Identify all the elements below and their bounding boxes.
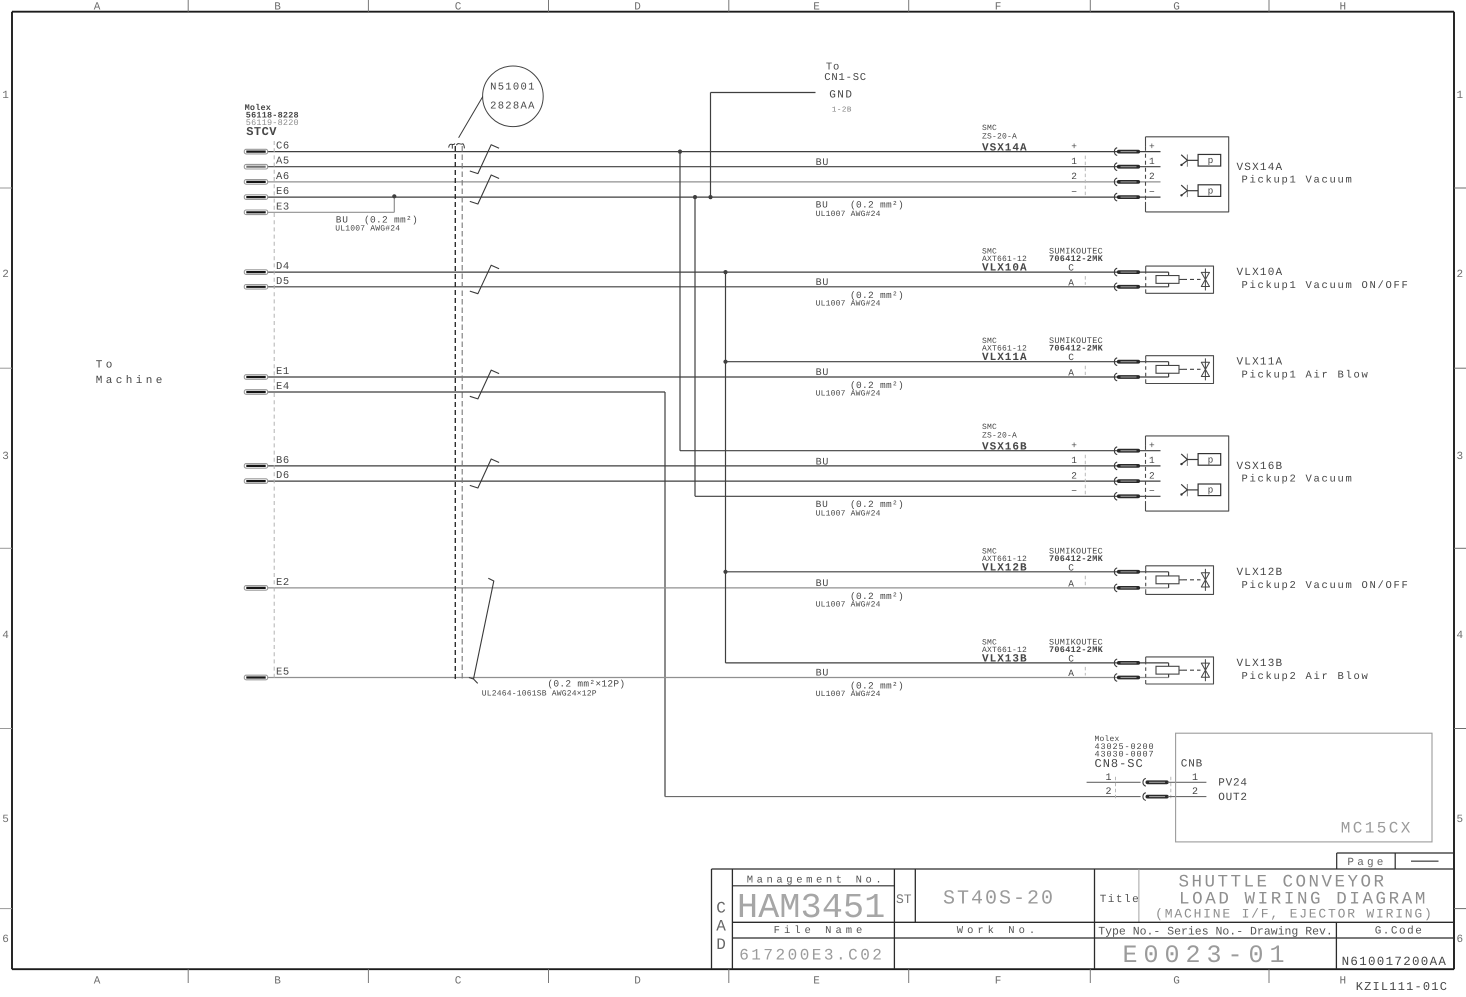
svg-text:2: 2 xyxy=(1071,171,1077,182)
svg-text:−: − xyxy=(1071,486,1077,497)
svg-text:BU: BU xyxy=(816,278,830,289)
svg-text:H: H xyxy=(1339,2,1346,14)
svg-text:N610017200AA: N610017200AA xyxy=(1342,955,1448,969)
svg-text:UL1007 AWG#24: UL1007 AWG#24 xyxy=(816,509,881,518)
svg-text:VSX14A: VSX14A xyxy=(982,143,1028,155)
svg-text:CN1-SC: CN1-SC xyxy=(824,72,867,84)
svg-text:p: p xyxy=(1208,155,1214,166)
svg-text:p: p xyxy=(1208,485,1214,496)
svg-text:+: + xyxy=(1149,440,1155,451)
svg-text:BU: BU xyxy=(816,457,830,468)
svg-text:VLX13B: VLX13B xyxy=(1237,658,1284,670)
svg-text:Pickup1 Vacuum: Pickup1 Vacuum xyxy=(1242,175,1354,187)
svg-text:A6: A6 xyxy=(276,171,290,183)
svg-text:VLX11A: VLX11A xyxy=(982,352,1028,364)
svg-text:C: C xyxy=(1068,562,1074,573)
svg-text:1: 1 xyxy=(1192,773,1198,784)
svg-text:E6: E6 xyxy=(276,186,290,198)
svg-text:C: C xyxy=(1068,263,1074,274)
svg-text:Work No.: Work No. xyxy=(957,925,1039,937)
svg-text:+: + xyxy=(1149,141,1155,152)
svg-text:BU: BU xyxy=(816,579,830,590)
svg-text:E: E xyxy=(813,2,820,14)
svg-text:D: D xyxy=(634,2,641,14)
svg-text:MC15CX: MC15CX xyxy=(1341,820,1413,838)
svg-text:E0023-01: E0023-01 xyxy=(1122,941,1290,970)
svg-text:Pickup2 Vacuum ON/OFF: Pickup2 Vacuum ON/OFF xyxy=(1242,580,1410,592)
svg-text:H: H xyxy=(1339,976,1346,988)
svg-text:2: 2 xyxy=(1149,470,1155,481)
svg-text:−: − xyxy=(1149,186,1155,197)
svg-text:File Name: File Name xyxy=(774,925,867,937)
svg-text:UL1007 AWG#24: UL1007 AWG#24 xyxy=(335,225,400,234)
svg-text:Pickup1 Air Blow: Pickup1 Air Blow xyxy=(1242,370,1370,382)
svg-text:706412-2MK: 706412-2MK xyxy=(1049,254,1104,264)
svg-text:CN8-SC: CN8-SC xyxy=(1095,757,1144,771)
svg-text:706412-2MK: 706412-2MK xyxy=(1049,554,1104,564)
svg-text:PV24: PV24 xyxy=(1218,778,1248,790)
svg-text:2: 2 xyxy=(2,269,9,281)
svg-text:VSX16B: VSX16B xyxy=(1237,461,1284,473)
svg-text:1: 1 xyxy=(1456,90,1463,102)
svg-text:VLX12B: VLX12B xyxy=(1237,567,1284,579)
svg-text:VSX16B: VSX16B xyxy=(982,442,1028,454)
svg-text:D: D xyxy=(716,936,726,954)
svg-text:VLX10A: VLX10A xyxy=(1237,267,1284,279)
svg-text:2: 2 xyxy=(1105,787,1111,798)
svg-text:BU: BU xyxy=(816,158,830,169)
svg-text:706412-2MK: 706412-2MK xyxy=(1049,645,1104,655)
svg-text:p: p xyxy=(1208,186,1214,197)
svg-text:VLX13B: VLX13B xyxy=(982,653,1028,665)
svg-text:VLX10A: VLX10A xyxy=(982,263,1028,275)
svg-text:A: A xyxy=(1068,668,1074,679)
svg-text:(MACHINE I/F, EJECTOR WIRING): (MACHINE I/F, EJECTOR WIRING) xyxy=(1155,907,1433,922)
svg-text:A5: A5 xyxy=(276,156,290,168)
svg-text:BU: BU xyxy=(816,368,830,379)
svg-text:BU: BU xyxy=(816,499,829,510)
svg-text:D4: D4 xyxy=(276,261,290,273)
svg-text:A: A xyxy=(1068,368,1074,379)
svg-text:C: C xyxy=(716,900,726,918)
svg-text:3: 3 xyxy=(1456,451,1463,463)
svg-text:(0.2 mm²): (0.2 mm²) xyxy=(850,200,904,211)
svg-text:706412-2MK: 706412-2MK xyxy=(1049,344,1104,354)
svg-text:OUT2: OUT2 xyxy=(1218,792,1248,804)
svg-text:Type No.- Series No.- Drawing: Type No.- Series No.- Drawing Rev. xyxy=(1098,926,1333,939)
svg-text:5: 5 xyxy=(1456,814,1463,826)
svg-text:C: C xyxy=(455,976,462,988)
svg-text:UL1007 AWG#24: UL1007 AWG#24 xyxy=(816,299,881,308)
svg-text:Pickup2 Vacuum: Pickup2 Vacuum xyxy=(1242,474,1354,486)
svg-text:p: p xyxy=(1208,454,1214,465)
svg-text:2: 2 xyxy=(1071,470,1077,481)
svg-text:ST: ST xyxy=(896,892,912,907)
svg-text:+: + xyxy=(1071,440,1077,451)
svg-text:E4: E4 xyxy=(276,381,290,393)
svg-text:6: 6 xyxy=(1456,934,1463,946)
svg-text:G.Code: G.Code xyxy=(1375,926,1424,938)
svg-text:HAM3451: HAM3451 xyxy=(737,888,885,928)
svg-text:VSX14A: VSX14A xyxy=(1237,162,1284,174)
svg-text:N51001: N51001 xyxy=(490,82,536,94)
svg-text:−: − xyxy=(1149,486,1155,497)
svg-text:C6: C6 xyxy=(276,141,290,153)
svg-text:ZS-20-A: ZS-20-A xyxy=(982,432,1017,441)
svg-text:1: 1 xyxy=(1149,156,1155,167)
svg-text:2: 2 xyxy=(1456,269,1463,281)
svg-text:BU: BU xyxy=(816,200,829,211)
svg-text:B6: B6 xyxy=(276,455,290,467)
svg-text:1: 1 xyxy=(1149,455,1155,466)
svg-text:Pickup2 Air Blow: Pickup2 Air Blow xyxy=(1242,671,1370,683)
svg-text:A: A xyxy=(94,2,101,14)
svg-text:Machine: Machine xyxy=(96,375,166,387)
svg-text:B: B xyxy=(274,976,281,988)
svg-text:+: + xyxy=(1071,141,1077,152)
svg-text:617200E3.C02: 617200E3.C02 xyxy=(739,947,884,965)
svg-text:ST40S-20: ST40S-20 xyxy=(943,888,1055,911)
svg-text:CNB: CNB xyxy=(1181,759,1203,771)
svg-text:F: F xyxy=(995,976,1002,988)
svg-text:D: D xyxy=(634,976,641,988)
svg-text:E2: E2 xyxy=(276,577,290,589)
svg-text:4: 4 xyxy=(2,630,9,642)
svg-text:2: 2 xyxy=(1149,171,1155,182)
svg-text:Management No.: Management No. xyxy=(747,875,886,887)
svg-text:UL1007 AWG#24: UL1007 AWG#24 xyxy=(816,390,881,399)
svg-text:C: C xyxy=(1068,653,1074,664)
svg-text:D6: D6 xyxy=(276,470,290,482)
svg-text:−: − xyxy=(1071,186,1077,197)
svg-text:UL1007 AWG#24: UL1007 AWG#24 xyxy=(816,600,881,609)
svg-text:2828AA: 2828AA xyxy=(490,101,536,113)
svg-text:3: 3 xyxy=(2,451,9,463)
svg-text:E1: E1 xyxy=(276,366,290,378)
svg-text:5: 5 xyxy=(2,814,9,826)
svg-text:C: C xyxy=(455,2,462,14)
svg-text:G: G xyxy=(1173,976,1180,988)
svg-text:A: A xyxy=(716,918,726,936)
svg-text:VLX12B: VLX12B xyxy=(982,562,1028,574)
svg-text:A: A xyxy=(1068,578,1074,589)
svg-text:4: 4 xyxy=(1456,630,1463,642)
svg-text:(0.2 mm²): (0.2 mm²) xyxy=(850,499,904,510)
svg-text:2: 2 xyxy=(1192,787,1198,798)
svg-text:GND: GND xyxy=(829,89,853,101)
svg-text:E: E xyxy=(813,976,820,988)
svg-text:D5: D5 xyxy=(276,276,290,288)
svg-text:G: G xyxy=(1173,2,1180,14)
svg-text:BU: BU xyxy=(816,669,830,680)
svg-text:1: 1 xyxy=(1071,156,1077,167)
svg-text:A: A xyxy=(1068,277,1074,288)
svg-text:Title: Title xyxy=(1100,894,1141,906)
svg-text:F: F xyxy=(995,2,1002,14)
svg-text:E5: E5 xyxy=(276,667,290,679)
svg-text:VLX11A: VLX11A xyxy=(1237,357,1284,369)
svg-text:6: 6 xyxy=(2,934,9,946)
svg-text:UL2464-1061SB AWG24×12P: UL2464-1061SB AWG24×12P xyxy=(482,690,597,699)
svg-text:1: 1 xyxy=(2,90,9,102)
svg-text:B: B xyxy=(274,2,281,14)
svg-text:1-2B: 1-2B xyxy=(832,105,852,114)
svg-text:UL1007 AWG#24: UL1007 AWG#24 xyxy=(816,690,881,699)
svg-text:1: 1 xyxy=(1071,455,1077,466)
svg-text:E3: E3 xyxy=(276,201,290,213)
svg-text:(0.2 mm²×12P): (0.2 mm²×12P) xyxy=(547,679,625,690)
svg-text:A: A xyxy=(94,976,101,988)
svg-text:Pickup1 Vacuum ON/OFF: Pickup1 Vacuum ON/OFF xyxy=(1242,280,1410,292)
svg-text:KZIL111-01C: KZIL111-01C xyxy=(1356,980,1448,992)
svg-text:To: To xyxy=(96,360,116,372)
svg-text:Page: Page xyxy=(1347,857,1386,869)
svg-text:STCV: STCV xyxy=(246,125,277,139)
svg-text:C: C xyxy=(1068,352,1074,363)
svg-text:ZS-20-A: ZS-20-A xyxy=(982,133,1017,142)
svg-text:UL1007 AWG#24: UL1007 AWG#24 xyxy=(816,210,881,219)
svg-text:1: 1 xyxy=(1105,773,1111,784)
